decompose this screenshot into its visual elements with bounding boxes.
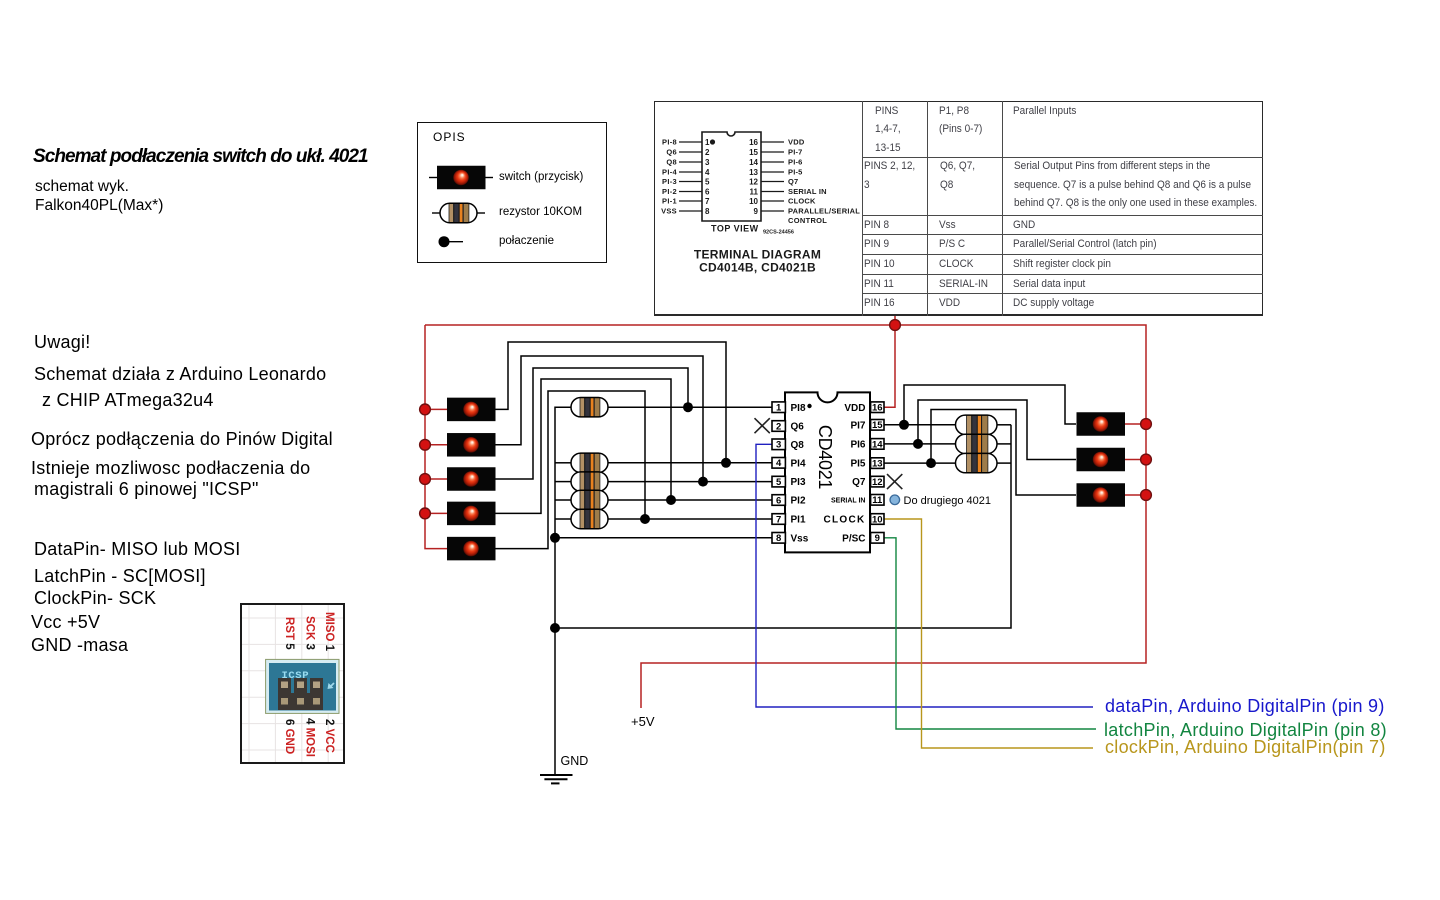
svg-text:PI4: PI4 bbox=[791, 458, 806, 469]
svg-text:12: 12 bbox=[872, 477, 883, 488]
svg-text:8: 8 bbox=[776, 533, 781, 544]
svg-text:Q6: Q6 bbox=[791, 422, 805, 433]
svg-text:VDD: VDD bbox=[844, 403, 865, 414]
svg-text:10: 10 bbox=[872, 514, 883, 525]
svg-text:3: 3 bbox=[776, 440, 781, 451]
svg-text:clockPin, Arduino DigitalPin(p: clockPin, Arduino DigitalPin(pin 7) bbox=[1105, 737, 1386, 757]
svg-text:6: 6 bbox=[776, 495, 781, 506]
svg-text:MISO 1: MISO 1 bbox=[323, 612, 335, 652]
svg-text:SCK 3: SCK 3 bbox=[304, 616, 316, 650]
svg-text:6 GND: 6 GND bbox=[283, 719, 295, 754]
svg-text:+5V: +5V bbox=[631, 714, 655, 729]
svg-text:SERIAL IN: SERIAL IN bbox=[831, 497, 866, 504]
svg-text:Q8: Q8 bbox=[791, 440, 805, 451]
svg-text:GND: GND bbox=[561, 754, 589, 768]
svg-text:4: 4 bbox=[776, 458, 782, 469]
svg-text:Do drugiego 4021: Do drugiego 4021 bbox=[904, 495, 991, 507]
svg-text:2: 2 bbox=[776, 421, 781, 432]
svg-text:4 MOSI: 4 MOSI bbox=[304, 718, 316, 757]
svg-text:PI8: PI8 bbox=[791, 403, 806, 414]
svg-text:CLOCK: CLOCK bbox=[823, 515, 865, 526]
svg-text:PI5: PI5 bbox=[850, 459, 865, 470]
svg-text:PI3: PI3 bbox=[791, 477, 806, 488]
svg-text:7: 7 bbox=[776, 514, 781, 525]
svg-text:dataPin, Arduino DigitalPin (p: dataPin, Arduino DigitalPin (pin 9) bbox=[1105, 696, 1385, 716]
svg-text:1: 1 bbox=[776, 403, 782, 414]
svg-text:PI1: PI1 bbox=[791, 515, 806, 526]
svg-text:PI2: PI2 bbox=[791, 496, 806, 507]
svg-text:13: 13 bbox=[872, 459, 883, 470]
svg-text:9: 9 bbox=[875, 533, 880, 544]
svg-text:14: 14 bbox=[872, 439, 883, 450]
svg-text:15: 15 bbox=[872, 420, 883, 431]
svg-text:11: 11 bbox=[872, 495, 883, 506]
svg-text:P/SC: P/SC bbox=[842, 533, 865, 544]
svg-text:2 VCC: 2 VCC bbox=[323, 719, 335, 753]
svg-text:PI7: PI7 bbox=[850, 420, 865, 431]
svg-text:CD4021: CD4021 bbox=[815, 425, 835, 490]
svg-text:5: 5 bbox=[776, 477, 782, 488]
svg-text:PI6: PI6 bbox=[850, 440, 865, 451]
svg-text:16: 16 bbox=[872, 403, 883, 414]
svg-text:RST 5: RST 5 bbox=[283, 617, 295, 650]
svg-text:Q7: Q7 bbox=[852, 477, 866, 488]
svg-text:Vss: Vss bbox=[791, 533, 809, 544]
